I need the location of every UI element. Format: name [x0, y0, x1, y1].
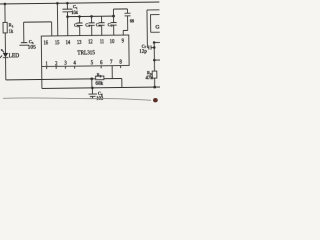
svg-text:R2: R2: [97, 72, 102, 78]
svg-text:TRL315: TRL315: [77, 50, 95, 56]
svg-text:16: 16: [43, 39, 48, 46]
svg-text:3: 3: [64, 61, 67, 67]
wire pin15 drop: [56, 3, 58, 36]
IC U1 box: [41, 35, 129, 67]
wire right edge entry top: [147, 10, 160, 46]
scan artifact blob: [153, 98, 158, 102]
node junction top rail / R1: [4, 3, 7, 6]
capacitor C2 drop pin13: [77, 16, 83, 35]
pin stub 4: [74, 66, 76, 68]
pin stub 3: [64, 66, 66, 68]
capacitor C5 drop pin10: [111, 16, 117, 35]
svg-text:14: 14: [66, 39, 71, 46]
wire top supply rail: [0, 2, 159, 4]
pin stub 8: [120, 66, 122, 68]
wire right out y43: [154, 41, 160, 43]
capacitor C1 104: [66, 3, 68, 9]
svg-text:C7: C7: [142, 43, 147, 49]
wire R2 left lead: [92, 78, 96, 80]
capacitor C9 105 lead wires: [24, 22, 52, 42]
svg-text:4: 4: [73, 61, 76, 67]
wire LED to bottom: [5, 58, 7, 80]
svg-text:C3: C3: [85, 22, 90, 28]
wire pin7 down: [111, 66, 113, 79]
pin stub 1: [46, 67, 48, 69]
node junction C7 right: [153, 46, 156, 49]
node junction pin5 / R2 left: [90, 77, 93, 80]
wire bridge to C8: [113, 9, 127, 16]
node junction right y61: [153, 59, 156, 62]
capacitor C7 12p: [147, 45, 154, 49]
capacitor C9 105 plates: [19, 43, 29, 46]
svg-text:G: G: [155, 25, 159, 31]
wire bottom rail 1 left segment: [6, 79, 92, 80]
node junction C1 bottom rail2top: [66, 15, 69, 18]
pin stub 6: [100, 66, 102, 68]
svg-text:1: 1: [45, 61, 47, 67]
svg-text:1k: 1k: [9, 29, 14, 35]
svg-text:LED: LED: [8, 52, 19, 59]
svg-text:68k: 68k: [96, 82, 104, 87]
svg-text:2: 2: [55, 61, 58, 67]
svg-text:5: 5: [91, 60, 94, 66]
wire right out y61: [154, 59, 160, 61]
svg-text:11: 11: [100, 38, 104, 45]
capacitor C6 103: [91, 88, 93, 94]
pin numbers bottom row 1..8: [45, 60, 122, 68]
svg-text:68: 68: [130, 18, 134, 23]
wire R1 top lead: [4, 4, 6, 22]
wire mid rail (rail2top): [68, 15, 114, 18]
capacitor C4 drop pin11: [99, 16, 105, 35]
svg-text:9: 9: [122, 38, 124, 45]
node junction rail2top x80: [78, 15, 81, 18]
svg-text:15: 15: [55, 39, 60, 46]
node junction right vertical top: [153, 41, 156, 44]
wire bottom rail 2: [42, 87, 160, 88]
svg-text:8: 8: [119, 60, 122, 66]
svg-text:13: 13: [77, 39, 82, 46]
pin numbers top row 16..9: [43, 38, 124, 47]
node junction R3 rail2: [153, 86, 156, 89]
svg-text:104: 104: [71, 11, 78, 16]
scan artifact bottom line: [3, 98, 151, 100]
wire corner down to rail 2: [121, 78, 123, 87]
svg-text:47k: 47k: [145, 75, 153, 81]
node junction cap C6 top: [91, 87, 94, 90]
svg-text:105: 105: [28, 45, 37, 51]
wire right vertical: [153, 42, 155, 71]
resistor R1: [3, 22, 7, 33]
pin stub 2: [55, 66, 57, 68]
capacitor C3 drop pin12: [89, 16, 95, 35]
wire C6 bottom to artifact line: [90, 98, 92, 99]
component box G right edge: [151, 15, 160, 33]
wire pin5 down to rail2: [91, 79, 93, 88]
resistor R3 47k: [152, 71, 157, 78]
svg-text:6: 6: [100, 60, 103, 66]
wire R3 bottom lead: [154, 78, 156, 87]
svg-text:C2: C2: [74, 22, 79, 28]
svg-text:10: 10: [110, 38, 115, 45]
svg-text:C4: C4: [96, 22, 101, 28]
svg-text:103: 103: [96, 97, 104, 102]
node junction top rail C1: [66, 2, 69, 5]
wire IC left edge down to rail 2: [41, 66, 43, 88]
wire R2 right lead to corner: [104, 77, 122, 79]
node junction top rail pin15 drop: [56, 2, 59, 5]
svg-text:7: 7: [110, 60, 113, 66]
node junction rail2top x92: [90, 15, 93, 18]
svg-text:12p: 12p: [139, 50, 147, 55]
svg-text:C1: C1: [73, 4, 78, 10]
svg-text:12: 12: [88, 38, 93, 45]
LED D1: [0, 49, 8, 58]
svg-text:R1: R1: [9, 22, 14, 28]
capacitor C8: [123, 13, 131, 35]
resistor R2: [96, 76, 104, 80]
node junction rail2top right end: [112, 15, 115, 18]
wire C1 to pin14: [67, 17, 69, 36]
wire R1 to LED: [4, 33, 6, 53]
svg-text:C6: C6: [98, 91, 103, 97]
